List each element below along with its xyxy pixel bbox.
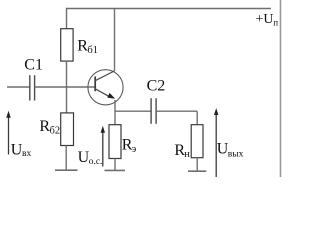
- resistor Rэ: [109, 125, 121, 159]
- transistor VT1 body circle: [88, 70, 123, 105]
- resistor Rб2: [61, 113, 74, 146]
- emitter wire down: [114, 100, 116, 125]
- svg-text:н: н: [184, 149, 190, 160]
- svg-text:о.с.: о.с.: [89, 157, 103, 167]
- wire rail to Rb1: [66, 9, 68, 30]
- ground (Rб2): [55, 169, 78, 171]
- collector wire to rail: [114, 9, 116, 72]
- svg-text:вых: вых: [228, 149, 244, 159]
- svg-text:U: U: [11, 141, 23, 158]
- capacitor C1: [29, 75, 31, 100]
- wire Rэ to ground: [114, 159, 116, 171]
- svg-text:э: э: [132, 144, 137, 155]
- arrow Uвых: [215, 114, 217, 178]
- svg-text:вх: вх: [22, 149, 31, 159]
- wire down to Rн: [196, 111, 198, 125]
- resistor Rн: [191, 125, 203, 158]
- right border line: [280, 0, 282, 177]
- transistor VT1 collector stroke: [95, 71, 114, 81]
- wire C2 to Rн: [156, 110, 197, 112]
- transistor VT1 emitter arrowhead: [107, 93, 115, 99]
- transistor VT1 emitter stroke: [95, 89, 111, 98]
- ground (Rэ): [105, 169, 126, 171]
- emitter branch wire to C2: [115, 110, 152, 112]
- ground (Rн): [188, 170, 206, 172]
- svg-text:б2: б2: [50, 126, 61, 137]
- transistor VT1 base bar: [94, 77, 96, 92]
- base wire: [35, 86, 95, 88]
- svg-text:б1: б1: [87, 45, 98, 56]
- wire Rb1 to Rb2 (base node): [66, 61, 68, 113]
- svg-text:п: п: [273, 18, 278, 28]
- power rail +Un wire: [66, 8, 271, 10]
- svg-text:C1: C1: [24, 57, 43, 74]
- resistor Rб1: [61, 29, 73, 61]
- capacitor C2: [150, 98, 152, 124]
- input wire: [7, 86, 30, 88]
- arrow Uвх: [8, 116, 10, 155]
- svg-text:C2: C2: [147, 77, 166, 94]
- arrow Uо.с.: [102, 131, 104, 167]
- svg-text:+U: +U: [256, 12, 274, 27]
- wire Rb2 to ground: [65, 146, 67, 171]
- wire Rн to ground: [196, 158, 198, 171]
